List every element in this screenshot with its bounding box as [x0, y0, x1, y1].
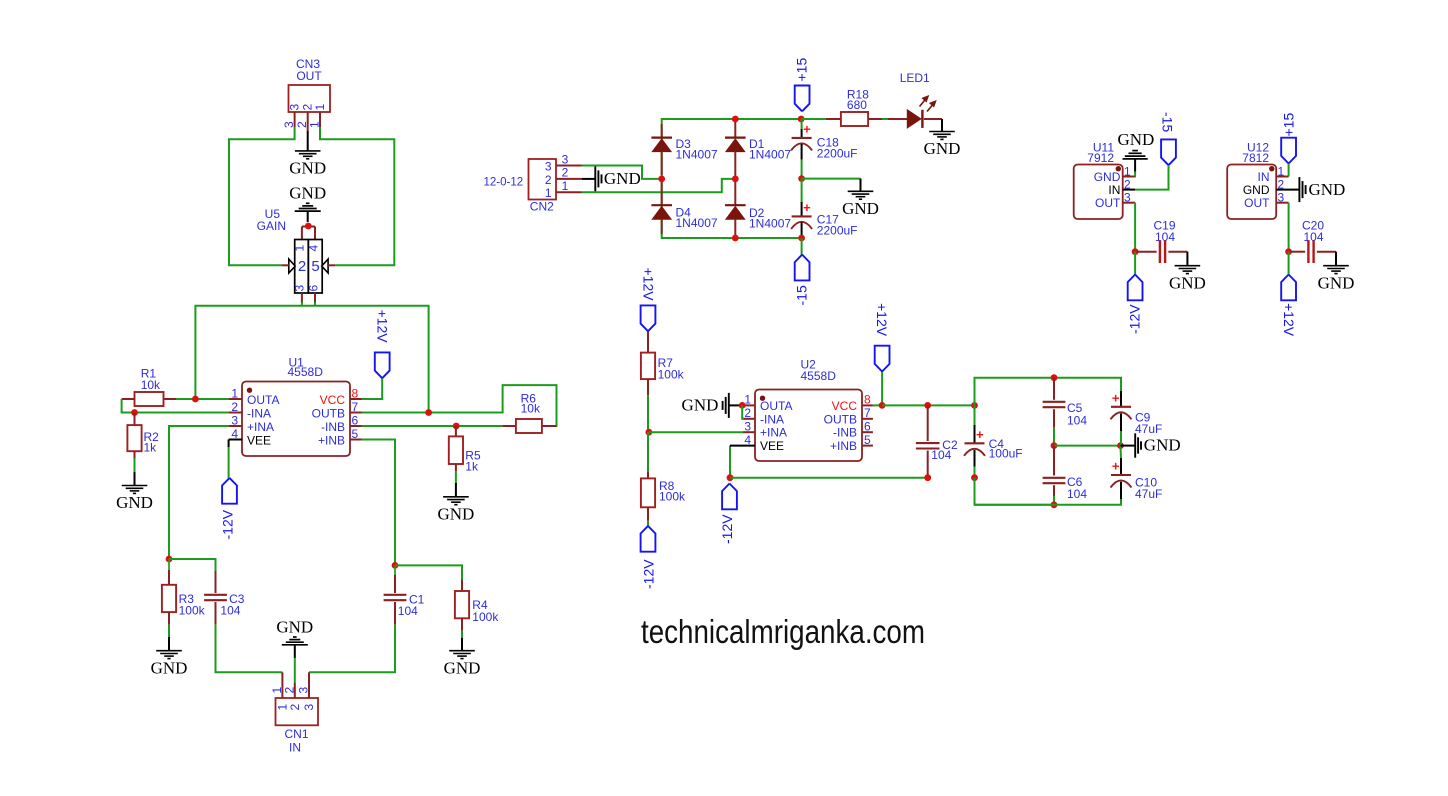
svg-text:3: 3: [282, 121, 296, 128]
junction C18/C17 mid: [798, 175, 805, 182]
resistor R8 100k: [647, 432, 649, 471]
svg-text:5: 5: [864, 433, 871, 447]
junction pin1 node: [192, 396, 199, 403]
svg-text:1N4007: 1N4007: [676, 148, 718, 162]
wire +15 to U12 IN: [1288, 164, 1290, 177]
svg-text:GND: GND: [1318, 273, 1355, 292]
svg-text:GND: GND: [842, 199, 879, 218]
junction mid rail left: [1051, 442, 1058, 449]
wire bridge top rail: [662, 119, 801, 179]
svg-text:-12V: -12V: [220, 509, 236, 539]
svg-text:3: 3: [1278, 191, 1285, 205]
junction bridge bottom: [732, 235, 739, 242]
wire R3 to ground: [168, 625, 170, 638]
wire R1 left to R2 top: [122, 399, 133, 413]
svg-text:+12V: +12V: [874, 303, 890, 337]
svg-text:OUT: OUT: [1095, 196, 1121, 210]
wire U12 OUT down: [1288, 203, 1290, 252]
svg-text:8: 8: [864, 393, 871, 407]
U2 pin 3: [743, 431, 755, 433]
U2 pin 1: [743, 404, 755, 406]
svg-text:GAIN: GAIN: [257, 219, 286, 233]
svg-text:1: 1: [308, 121, 322, 128]
U2 pin4 wire to -12V rail: [729, 446, 731, 478]
junction R7/R8 node: [646, 429, 653, 436]
svg-text:IN: IN: [1258, 170, 1270, 184]
connector CN2: [529, 159, 557, 200]
U2 pin 5: [862, 445, 873, 447]
wire C3 down to CN1 rail: [216, 625, 283, 673]
ground R4: [461, 638, 463, 651]
svg-text:+: +: [803, 200, 811, 215]
U5 left wiper arrow: [289, 259, 295, 273]
svg-text:6: 6: [864, 420, 871, 434]
net flag +15 (U12): [1281, 138, 1296, 164]
net flag -12V (U1): [222, 478, 237, 504]
svg-text:7812: 7812: [1242, 151, 1269, 165]
svg-text:GND: GND: [151, 658, 188, 677]
junction bottom rail: [1051, 501, 1058, 508]
ground CN3 pin2: [307, 131, 309, 151]
svg-text:1N4007: 1N4007: [749, 217, 791, 231]
svg-text:7: 7: [864, 406, 871, 420]
resistor R3: [168, 559, 170, 570]
svg-text:1: 1: [231, 386, 238, 400]
junction -15 rail: [798, 235, 805, 242]
CN2 pin 1: [556, 191, 582, 193]
wire VEE rail to C2/C4 bottom: [730, 477, 928, 479]
wire U12 out to +12V: [1288, 252, 1290, 275]
diode D2 1N4007: [734, 179, 736, 205]
svg-text:4558D: 4558D: [288, 365, 324, 379]
svg-text:3: 3: [545, 159, 552, 173]
U1 pin 5: [350, 439, 362, 441]
svg-text:OUTB: OUTB: [312, 406, 345, 420]
wire LED cathode to ground: [924, 118, 942, 120]
wire R8 to -12V: [647, 521, 649, 527]
svg-text:2200uF: 2200uF: [817, 224, 858, 238]
resistor R2: [134, 413, 136, 426]
svg-text:+INB: +INB: [830, 439, 857, 453]
resistor R18 680: [826, 118, 841, 120]
U1 pin 8: [350, 398, 362, 400]
svg-text:2: 2: [545, 173, 552, 187]
U12 pin 1: [1276, 176, 1288, 178]
svg-text:VCC: VCC: [320, 393, 346, 407]
svg-text:GND: GND: [604, 169, 641, 188]
svg-text:4: 4: [744, 433, 751, 447]
svg-text:680: 680: [847, 98, 867, 112]
wire C4 top to box rail: [975, 378, 1122, 406]
svg-text:10k: 10k: [521, 401, 541, 415]
svg-text:VCC: VCC: [832, 399, 858, 413]
svg-text:7912: 7912: [1087, 151, 1114, 165]
net flag -15 (U11): [1161, 139, 1176, 165]
svg-text:104: 104: [1067, 413, 1087, 427]
capacitor C10 47uF: [1120, 446, 1123, 459]
wire to C3: [169, 559, 216, 571]
wire ground to CN1 pin2: [294, 658, 296, 683]
capacitor C6 104: [1053, 446, 1055, 476]
ground mid rail: [1121, 445, 1135, 447]
ground R2: [134, 472, 136, 486]
svg-text:+15: +15: [1281, 113, 1297, 137]
svg-text:-12V: -12V: [719, 514, 735, 544]
svg-text:10k: 10k: [141, 378, 161, 392]
svg-text:CN1: CN1: [284, 727, 308, 741]
svg-text:GND: GND: [924, 139, 961, 158]
svg-text:2: 2: [1124, 177, 1131, 191]
U1 pin 6: [350, 425, 362, 427]
junction bridge top: [732, 116, 739, 123]
U12 pin 3: [1276, 202, 1288, 204]
svg-text:2: 2: [562, 166, 569, 180]
ground CN2 pin2: [582, 178, 595, 180]
U11 pin 3: [1123, 202, 1135, 204]
junction pin7 node: [425, 409, 432, 416]
svg-text:100k: 100k: [659, 489, 686, 503]
net flag +12V (R7): [641, 305, 656, 331]
wire R2 to ground: [134, 458, 136, 473]
svg-text:3: 3: [288, 104, 302, 111]
CN3 pin 1: [319, 112, 321, 127]
svg-text:+: +: [803, 121, 811, 136]
svg-text:104: 104: [931, 448, 951, 462]
wire -15 to U11 IN: [1135, 165, 1168, 189]
net flag +15: [795, 86, 810, 112]
U11 pin 1: [1123, 176, 1136, 178]
svg-text:4: 4: [231, 427, 238, 441]
svg-text:1: 1: [1124, 164, 1131, 178]
resistor R5: [455, 426, 457, 436]
wire U2 VCC to +12V flag: [873, 372, 882, 406]
ground PSU mid: [848, 190, 874, 192]
svg-text:3: 3: [297, 687, 311, 694]
svg-text:1: 1: [313, 104, 327, 111]
capacitor C18 2200uF: [801, 119, 803, 130]
U2 pin 2: [743, 418, 755, 420]
junction U5 wiper: [305, 223, 312, 230]
ground R3: [168, 637, 170, 651]
diode D4 1N4007: [661, 182, 663, 205]
svg-text:technicalmriganka.com: technicalmriganka.com: [641, 613, 925, 650]
capacitor C5 104: [1053, 378, 1055, 400]
svg-text:104: 104: [1067, 487, 1087, 501]
svg-text:GND: GND: [276, 617, 313, 636]
svg-text:+: +: [1112, 459, 1120, 474]
svg-text:2200uF: 2200uF: [817, 146, 858, 160]
wire U11 out to -12V: [1134, 252, 1136, 275]
svg-text:6: 6: [352, 413, 359, 427]
junction U2 pin1: [739, 402, 746, 409]
junction +15 rail: [798, 116, 805, 123]
junction bridge mid right: [732, 176, 739, 183]
svg-text:1k: 1k: [465, 460, 479, 474]
wire U5 wiper stubs: [301, 227, 303, 240]
svg-text:100k: 100k: [179, 604, 206, 618]
svg-text:GND: GND: [1169, 273, 1206, 292]
svg-text:GND: GND: [1243, 183, 1270, 197]
U12 pin 2: [1276, 189, 1293, 191]
U1 pin4 wire to -12V: [228, 440, 230, 448]
wire bridge bottom rail: [662, 179, 801, 238]
svg-text:+: +: [1112, 390, 1120, 405]
wire pin8 to +12V: [362, 378, 383, 399]
junction U12 out node: [1285, 248, 1292, 255]
svg-text:+INB: +INB: [318, 433, 345, 447]
junction U11 out node: [1132, 248, 1139, 255]
diode D1 1N4007: [734, 119, 736, 138]
op-amp U1 4558D: [242, 382, 350, 457]
svg-text:OUT: OUT: [296, 69, 322, 83]
CN2 pin 3: [556, 165, 582, 167]
svg-text:-15: -15: [794, 285, 810, 305]
svg-text:2: 2: [288, 704, 302, 711]
wire pin7 feedback: [362, 385, 557, 426]
wire CN3 pin1 to loop: [320, 127, 394, 265]
capacitor C9 47uF: [1120, 391, 1122, 407]
diode D3 1N4007: [661, 124, 663, 138]
svg-text:4558D: 4558D: [801, 369, 837, 383]
wire mid to ground: [802, 178, 861, 180]
wire C4 bottom to box rail: [975, 478, 1055, 505]
svg-text:1k: 1k: [144, 440, 158, 454]
svg-text:7: 7: [352, 400, 359, 414]
svg-text:100k: 100k: [658, 367, 685, 381]
wire to -15 flag: [801, 238, 803, 255]
svg-text:100uF: 100uF: [989, 446, 1023, 460]
wire U11 OUT down: [1134, 203, 1136, 252]
wire C1 down to CN1 rail: [309, 625, 395, 673]
CN3 pin 3: [294, 112, 296, 127]
net flag +12V (U12): [1281, 275, 1296, 301]
svg-text:1: 1: [562, 179, 569, 193]
U2 pin 8: [862, 404, 873, 406]
wire pin3 line: [169, 426, 229, 559]
svg-text:GND: GND: [682, 396, 719, 415]
net flag -12V (U11): [1128, 275, 1143, 301]
ground U12 pin2: [1294, 189, 1300, 191]
wire pin6 line: [362, 425, 503, 427]
junction R2 top: [131, 409, 138, 416]
wire node to U2 pin3: [649, 431, 743, 433]
svg-text:GND: GND: [289, 159, 326, 178]
svg-text:OUTA: OUTA: [760, 399, 792, 413]
U11 pin 2: [1123, 189, 1136, 191]
U5 pin3 stub: [301, 293, 303, 303]
wire +15 rail to R18: [801, 118, 826, 120]
op-amp U2 4558D: [755, 390, 862, 462]
svg-text:GND: GND: [116, 493, 153, 512]
svg-text:GND: GND: [1144, 436, 1181, 455]
net flag +12V (U1): [375, 352, 390, 378]
svg-text:OUTB: OUTB: [824, 412, 857, 426]
wire pin1 to pin2: [742, 405, 744, 418]
wire R4 to ground: [461, 631, 463, 639]
svg-text:-INA: -INA: [247, 406, 271, 420]
junction R3/C3 node: [166, 556, 173, 563]
svg-text:CN2: CN2: [530, 200, 554, 214]
junction mid rail right: [1117, 442, 1124, 449]
svg-text:+15: +15: [794, 58, 810, 82]
wire pin5 to C1/R4: [362, 440, 396, 566]
junction bridge mid left: [658, 176, 665, 183]
ground R5: [455, 483, 457, 497]
resistor R4: [461, 580, 463, 591]
svg-text:+: +: [976, 427, 984, 442]
net flag -12V (R8): [641, 526, 656, 552]
wire to R4: [395, 565, 462, 580]
regulator U11 7912: [1074, 165, 1123, 220]
svg-text:+12V: +12V: [1281, 303, 1297, 337]
junction C2 top: [924, 402, 931, 409]
junction VCC node: [879, 402, 886, 409]
capacitor C3: [215, 571, 217, 593]
capacitor C4 100uF: [974, 405, 976, 426]
svg-text:1N4007: 1N4007: [749, 148, 791, 162]
svg-text:+12V: +12V: [641, 268, 657, 302]
svg-text:3: 3: [1124, 191, 1131, 205]
U2 pin 6: [862, 431, 873, 433]
CN1 pin 1: [281, 672, 283, 698]
ground LED: [929, 131, 955, 133]
wire R18 to LED: [882, 118, 888, 120]
svg-text:12-0-12: 12-0-12: [484, 177, 524, 189]
junction pin6 node: [453, 423, 460, 430]
U2 pin 4: [733, 445, 755, 447]
junction C4 bottom: [971, 474, 978, 481]
svg-text:-INB: -INB: [321, 420, 345, 434]
wire CN3 pin3 to loop: [229, 127, 295, 265]
svg-text:2: 2: [231, 400, 238, 414]
svg-text:104: 104: [220, 604, 240, 618]
svg-text:1: 1: [293, 245, 307, 252]
svg-text:100k: 100k: [472, 610, 499, 624]
svg-text:GND: GND: [1117, 130, 1154, 149]
wire CN2 pin1 to bridge: [582, 179, 734, 192]
svg-text:1: 1: [1278, 164, 1285, 178]
svg-text:VEE: VEE: [760, 439, 784, 453]
svg-text:+12V: +12V: [375, 310, 391, 344]
ground C19: [1186, 252, 1188, 266]
capacitor C17 2200uF: [801, 179, 803, 203]
svg-text:2: 2: [1278, 177, 1285, 191]
svg-text:LED1: LED1: [900, 71, 930, 85]
U2 pin 7: [862, 418, 873, 420]
svg-text:+INA: +INA: [247, 420, 274, 434]
svg-text:-INA: -INA: [760, 412, 784, 426]
resistor R7 100k: [647, 331, 649, 352]
U1 pin 7: [350, 412, 362, 414]
svg-text:8: 8: [352, 386, 359, 400]
svg-text:2: 2: [298, 258, 306, 275]
svg-text:47uF: 47uF: [1135, 487, 1162, 501]
svg-text:3: 3: [231, 413, 238, 427]
junction -12V rail: [727, 474, 734, 481]
CN1 pin 3: [308, 672, 310, 698]
U1 pin 4: [229, 439, 242, 441]
CN1 pin 2: [294, 683, 296, 698]
svg-text:2: 2: [282, 687, 296, 694]
capacitor C1: [394, 565, 396, 575]
svg-text:1: 1: [545, 186, 552, 200]
wire mid rail: [1054, 445, 1121, 447]
wire R5 to ground: [455, 471, 457, 484]
svg-text:6: 6: [307, 285, 321, 292]
net flag -15: [795, 255, 810, 281]
U1 pin 2: [229, 412, 242, 414]
svg-text:-12V: -12V: [1127, 304, 1143, 334]
svg-text:IN: IN: [1108, 183, 1120, 197]
U1 pin 3: [229, 425, 242, 427]
svg-text:5: 5: [352, 427, 359, 441]
svg-text:-INB: -INB: [833, 426, 857, 440]
connector CN1: [276, 698, 319, 725]
ground C20: [1335, 252, 1337, 266]
svg-text:1N4007: 1N4007: [676, 216, 718, 230]
CN2 pin 2: [556, 178, 582, 180]
svg-text:GND: GND: [289, 183, 326, 202]
svg-text:OUTA: OUTA: [247, 393, 279, 407]
svg-text:104: 104: [398, 604, 418, 618]
svg-text:3: 3: [302, 704, 316, 711]
junction C1 node: [392, 562, 399, 569]
svg-text:GND: GND: [444, 658, 481, 677]
svg-text:+INA: +INA: [760, 426, 787, 440]
junction C2 bottom: [924, 474, 931, 481]
wire VCC rail: [882, 404, 974, 406]
wire R7 to node: [647, 395, 649, 432]
svg-text:GND: GND: [1094, 170, 1121, 184]
junction C4 top: [971, 402, 978, 409]
svg-text:2: 2: [744, 406, 751, 420]
svg-text:VEE: VEE: [247, 433, 271, 447]
svg-text:IN: IN: [289, 741, 301, 755]
net flag -12V (U2): [722, 484, 737, 510]
svg-text:3: 3: [562, 152, 569, 166]
U1 pin 1: [229, 398, 242, 400]
svg-text:47uF: 47uF: [1135, 422, 1162, 436]
svg-text:OUT: OUT: [1244, 196, 1270, 210]
svg-text:4: 4: [307, 245, 321, 252]
U5 pin6 stub: [314, 293, 316, 303]
svg-text:5: 5: [311, 258, 319, 275]
wire R1 to pin1: [176, 398, 229, 400]
svg-text:3: 3: [293, 285, 307, 292]
regulator U12 7812: [1227, 165, 1276, 220]
wire pin2 line: [135, 412, 229, 414]
capacitor C2 104: [927, 405, 929, 441]
svg-text:3: 3: [744, 420, 751, 434]
svg-text:-12V: -12V: [641, 559, 657, 589]
CN3 pin 2: [307, 112, 309, 131]
net flag +12V (U2): [875, 346, 890, 372]
wire bottom rail: [975, 498, 1122, 505]
junction C5 top: [1051, 374, 1058, 381]
svg-text:-15: -15: [1160, 112, 1176, 132]
wire U5 outputs rail: [301, 302, 303, 306]
svg-text:GND: GND: [1309, 180, 1346, 199]
connector CN3: [289, 85, 331, 112]
svg-text:GND: GND: [437, 504, 474, 523]
wire CN2 pin3 to bridge: [582, 166, 660, 179]
U5 right wiper arrow: [322, 259, 328, 273]
